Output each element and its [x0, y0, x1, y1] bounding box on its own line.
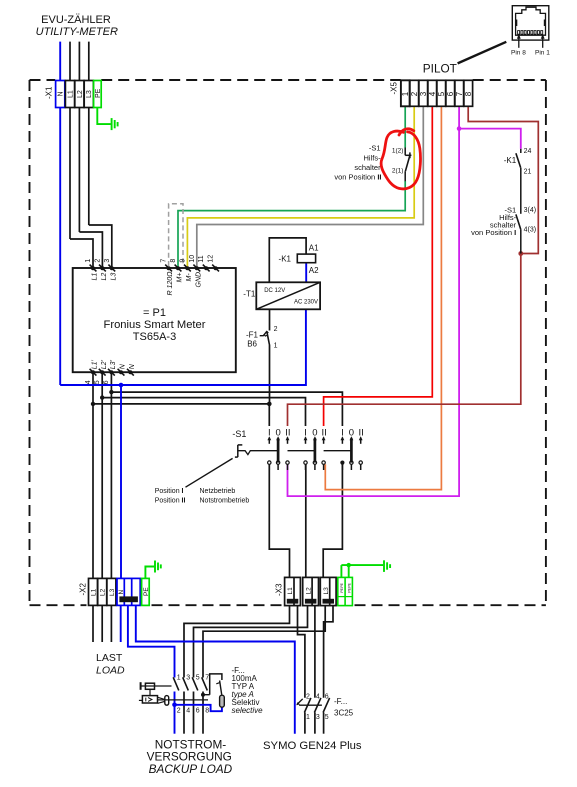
svg-text:SYMO GEN24 Plus: SYMO GEN24 Plus: [263, 740, 362, 752]
svg-text:1: 1: [306, 714, 310, 721]
svg-text:L3: L3: [109, 588, 116, 596]
svg-text:L3: L3: [323, 587, 330, 595]
svg-text:-X3: -X3: [274, 583, 283, 596]
svg-text:5: 5: [437, 91, 446, 96]
svg-text:PE: PE: [95, 88, 102, 98]
svg-text:5: 5: [94, 380, 101, 384]
svg-text:8: 8: [464, 91, 473, 96]
svg-text:4: 4: [316, 693, 320, 700]
svg-text:11: 11: [198, 255, 205, 262]
svg-text:5: 5: [325, 714, 329, 721]
svg-text:L1: L1: [287, 587, 294, 595]
svg-text:1: 1: [177, 675, 181, 682]
svg-text:4: 4: [428, 91, 437, 96]
svg-text:Position I: Position I: [155, 488, 184, 495]
svg-text:N: N: [118, 590, 125, 595]
svg-text:4: 4: [85, 380, 92, 384]
svg-text:schalter: schalter: [354, 163, 381, 172]
svg-text:2: 2: [177, 707, 181, 714]
svg-text:II: II: [285, 427, 290, 438]
svg-text:L1: L1: [92, 273, 99, 281]
svg-text:M-: M-: [186, 273, 193, 282]
svg-text:Pin 1: Pin 1: [535, 50, 550, 57]
svg-text:TS65A-3: TS65A-3: [133, 331, 176, 343]
svg-text:UTILITY-METER: UTILITY-METER: [36, 26, 118, 38]
svg-text:9: 9: [179, 259, 186, 263]
svg-text:PE: PE: [347, 582, 351, 587]
svg-text:PE: PE: [340, 582, 344, 587]
svg-text:L3: L3: [110, 273, 117, 281]
svg-text:-F...: -F...: [334, 697, 347, 706]
svg-text:-T1: -T1: [243, 290, 256, 299]
svg-text:3: 3: [186, 675, 190, 682]
svg-text:1: 1: [85, 259, 92, 263]
svg-text:4(3): 4(3): [524, 227, 536, 234]
svg-text:von Position II: von Position II: [334, 172, 381, 181]
svg-text:Netzbetrieb: Netzbetrieb: [200, 488, 236, 495]
svg-text:5: 5: [196, 675, 200, 682]
svg-text:Pin 8: Pin 8: [511, 50, 526, 57]
svg-text:2: 2: [274, 326, 278, 333]
svg-text:3C25: 3C25: [334, 708, 354, 717]
svg-text:2: 2: [410, 91, 419, 96]
svg-text:-X5: -X5: [390, 82, 399, 95]
svg-text:L2: L2: [101, 273, 108, 281]
svg-text:1(2): 1(2): [392, 148, 404, 155]
svg-text:8: 8: [205, 707, 209, 714]
svg-text:2(1): 2(1): [392, 168, 404, 175]
svg-text:6: 6: [196, 707, 200, 714]
svg-text:R 120Ω: R 120Ω: [167, 271, 174, 296]
svg-text:-X1: -X1: [45, 86, 54, 99]
svg-text:7: 7: [161, 259, 168, 263]
svg-text:L2: L2: [100, 588, 107, 596]
svg-text:10: 10: [189, 255, 196, 263]
svg-text:2: 2: [306, 693, 310, 700]
svg-text:A1: A1: [309, 243, 319, 252]
svg-text:3: 3: [316, 714, 320, 721]
svg-text:M+: M+: [177, 273, 184, 283]
svg-text:12: 12: [208, 255, 215, 263]
svg-text:Notstrombetrieb: Notstrombetrieb: [200, 498, 250, 505]
svg-text:L1: L1: [91, 588, 98, 596]
svg-text:3(4): 3(4): [524, 207, 536, 214]
svg-text:4: 4: [186, 707, 190, 714]
svg-text:DC 12V: DC 12V: [264, 288, 285, 294]
svg-text:EVU-ZÄHLER: EVU-ZÄHLER: [41, 14, 111, 26]
svg-text:AC 230V: AC 230V: [294, 299, 318, 305]
svg-text:L2: L2: [305, 587, 312, 595]
svg-text:7: 7: [205, 675, 209, 682]
svg-text:von Position I: von Position I: [471, 228, 516, 237]
svg-text:L2’: L2’: [101, 360, 108, 370]
svg-text:3: 3: [419, 91, 428, 96]
svg-text:PILOT: PILOT: [423, 62, 457, 76]
svg-text:N: N: [58, 91, 65, 96]
svg-text:II: II: [321, 427, 326, 438]
svg-text:PE: PE: [143, 587, 150, 596]
svg-text:1: 1: [401, 91, 410, 96]
svg-text:L3’: L3’: [110, 360, 117, 370]
svg-text:-X2: -X2: [78, 583, 87, 596]
svg-text:3: 3: [104, 259, 111, 263]
svg-text:LOAD: LOAD: [96, 665, 125, 677]
svg-text:-S1: -S1: [369, 144, 381, 153]
svg-text:1: 1: [274, 343, 278, 350]
svg-text:Fronius Smart Meter: Fronius Smart Meter: [104, 319, 206, 331]
svg-text:21: 21: [524, 168, 532, 175]
svg-text:LAST: LAST: [96, 652, 123, 664]
svg-text:GND: GND: [195, 272, 202, 288]
svg-text:BACKUP LOAD: BACKUP LOAD: [149, 762, 233, 776]
svg-text:= P1: = P1: [143, 307, 166, 319]
svg-text:Position II: Position II: [155, 498, 186, 505]
svg-text:B6: B6: [247, 339, 257, 348]
svg-text:6: 6: [103, 380, 110, 384]
svg-text:8: 8: [170, 259, 177, 263]
svg-text:L2: L2: [77, 90, 84, 98]
svg-text:-S1: -S1: [232, 429, 246, 439]
svg-text:6: 6: [325, 693, 329, 700]
svg-text:Hilfs-: Hilfs-: [364, 153, 382, 162]
svg-text:6: 6: [446, 91, 455, 96]
svg-text:A2: A2: [309, 266, 319, 275]
svg-text:24: 24: [524, 148, 532, 155]
svg-text:-F1: -F1: [246, 330, 259, 339]
svg-text:L1’: L1’: [92, 360, 99, 370]
svg-text:7: 7: [455, 91, 464, 96]
svg-text:2: 2: [94, 259, 101, 263]
svg-text:L1: L1: [67, 90, 74, 98]
svg-text:II: II: [358, 427, 363, 438]
svg-text:selective: selective: [232, 706, 264, 715]
svg-text:-K1: -K1: [504, 156, 517, 165]
svg-text:L3: L3: [86, 90, 93, 98]
svg-text:-K1: -K1: [279, 255, 292, 264]
